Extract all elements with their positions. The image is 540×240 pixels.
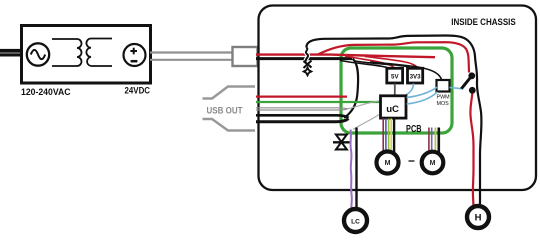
wire black to LC <box>355 128 357 210</box>
DC output source symbol <box>124 44 146 66</box>
wire USB green to uC <box>256 101 380 103</box>
svg-text:3V3: 3V3 <box>410 73 422 80</box>
motor M1 <box>377 152 399 174</box>
wire black brace curve to USB bundle <box>344 59 358 118</box>
svg-text:24VDC: 24VDC <box>125 86 151 97</box>
valve symbol <box>333 135 350 150</box>
load cell LC <box>344 209 367 232</box>
wire +24V red from connector <box>256 55 435 58</box>
wire gray uC to LC bundle <box>353 114 380 130</box>
wire black branch to PWM MOS <box>370 62 442 80</box>
AC source symbol <box>27 43 49 65</box>
PCB board outline <box>341 48 452 133</box>
wire red over PCB to switch <box>318 42 469 72</box>
wire black branch to 5V <box>340 61 389 69</box>
svg-text:INSIDE CHASSIS: INSIDE CHASSIS <box>451 17 516 27</box>
svg-text:M: M <box>385 160 391 167</box>
wire uC to PWM blue 2 <box>407 92 438 104</box>
wire USB red <box>256 95 347 97</box>
svg-text:MOS: MOS <box>437 101 450 107</box>
wire black branch to 3V3 <box>355 61 411 68</box>
wire USB black 2 <box>256 119 349 122</box>
wire USB twisted pair gray <box>256 101 380 110</box>
wire USB black 1 <box>256 115 349 118</box>
wire 3V3 to uC blue <box>405 84 414 96</box>
heater H <box>467 206 489 228</box>
wire purple twisted to LC <box>351 130 352 210</box>
transformer T1 secondary winding <box>86 39 112 67</box>
twisted joint squiggle <box>306 48 308 62</box>
microcontroller uC <box>381 96 407 118</box>
MOSFET PWM MOS <box>437 80 451 107</box>
svg-text:M: M <box>430 160 436 167</box>
regulator 5V <box>387 68 403 83</box>
wire uC to PWM blue 1 <box>407 87 438 97</box>
switch S1 <box>461 72 475 93</box>
power supply PSU enclosure <box>22 26 151 84</box>
motor M2 <box>422 152 444 174</box>
motor M2 wires <box>429 128 439 153</box>
svg-text:120-240VAC: 120-240VAC <box>21 87 71 98</box>
USB OUT cutout <box>203 87 256 131</box>
regulator 3V3 <box>408 68 423 83</box>
svg-text:H: H <box>475 213 482 224</box>
wire GND black from connector <box>256 57 352 60</box>
wire 24VDC gray cable <box>150 53 234 60</box>
wire red branch to 3V3 <box>365 57 418 69</box>
twisted joint X cross <box>304 61 312 69</box>
wire 5V to uC <box>394 84 396 96</box>
chassis enclosure <box>259 6 537 191</box>
wire red branch to 5V <box>345 56 395 68</box>
connector DC barrel plug <box>233 47 258 66</box>
wire AC mains input cable <box>0 49 22 57</box>
dash between motors <box>409 160 415 162</box>
wire red switch to heater <box>470 94 473 207</box>
wire PWM to switch blue <box>450 88 462 89</box>
transformer T1 primary winding <box>52 39 82 66</box>
svg-text:uC: uC <box>386 104 399 115</box>
svg-text:USB OUT: USB OUT <box>207 105 243 116</box>
motor M1 wires <box>383 119 394 153</box>
wire black loop over PCB to heater <box>306 36 481 207</box>
svg-text:5V: 5V <box>391 73 399 80</box>
svg-text:PWM: PWM <box>437 95 451 101</box>
twisted joint star <box>302 66 314 78</box>
svg-text:LC: LC <box>351 219 360 226</box>
svg-text:PCB: PCB <box>406 124 422 135</box>
